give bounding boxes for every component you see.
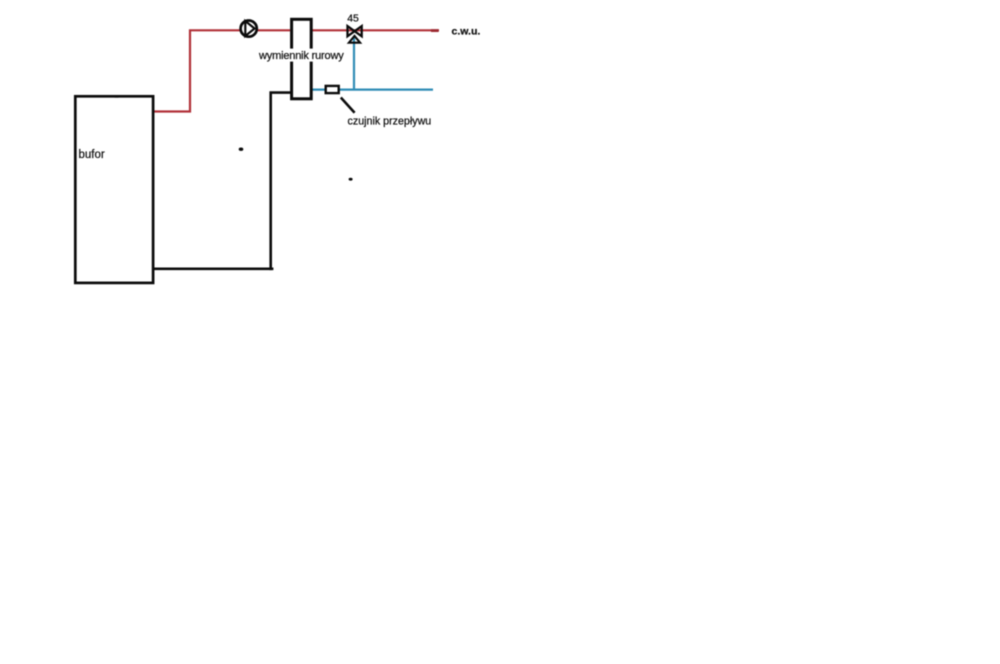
pump P1 <box>241 21 257 37</box>
flow sensor (czujnik przeplywu) <box>326 86 339 93</box>
label background wymiennik rurowy <box>258 49 345 62</box>
svg-text:45: 45 <box>347 13 359 25</box>
pointer line to flow sensor label <box>341 98 355 113</box>
svg-text:czujnik przepływu: czujnik przepływu <box>348 116 432 128</box>
red supply pipe: bufor top outlet to pump/exchanger <box>152 30 290 111</box>
stray dot 2 <box>349 178 353 181</box>
stray dot 1 <box>239 148 244 151</box>
black return pipe: bufor bottom to exchanger <box>152 93 291 271</box>
svg-text:wymiennik rurowy: wymiennik rurowy <box>258 50 344 62</box>
blue cold water vertical pipe from valve <box>353 37 355 90</box>
svg-text:bufor: bufor <box>79 149 105 161</box>
valve actuator triangle <box>349 36 360 43</box>
notch on bufor top edge <box>115 96 119 98</box>
red supply pipe: exchanger to c.w.u. line <box>312 29 440 31</box>
bufor tank <box>75 96 153 283</box>
red pipe end tip <box>431 29 439 32</box>
svg-text:c.w.u.: c.w.u. <box>452 26 481 38</box>
blue cold water horizontal pipe <box>312 88 433 90</box>
heat exchanger (wymiennik rurowy) <box>292 19 312 99</box>
valve V1 (bowtie) <box>348 26 362 36</box>
